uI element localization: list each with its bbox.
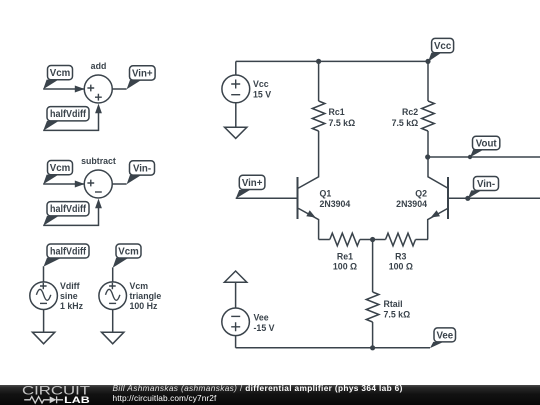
- svg-text:add: add: [91, 61, 107, 71]
- label Vcm triangle 100 Hz: [130, 281, 162, 311]
- wire node to Rtail: [372, 240, 374, 293]
- svg-text:2N3904: 2N3904: [396, 199, 427, 209]
- label Vdiff sine 1 kHz: [60, 281, 84, 311]
- node junction Rtail-bottom rail: [370, 345, 375, 350]
- svg-text:-15 V: -15 V: [254, 323, 275, 333]
- svg-text:Vin+: Vin+: [242, 178, 263, 189]
- svg-text:halfVdiff: halfVdiff: [50, 247, 87, 258]
- wire rail to Rc1: [318, 61, 320, 101]
- flag Vcm (subtract input): [43, 161, 72, 185]
- svg-text:Rc2: Rc2: [402, 107, 418, 117]
- label Re1 100 Ohm: [333, 252, 357, 272]
- ground (V1): [32, 332, 54, 344]
- voltage source V4 Vee: [222, 308, 250, 336]
- wire Vcc source to ground: [235, 103, 237, 127]
- svg-text:Vee: Vee: [254, 312, 269, 322]
- wire Vee source up: [235, 282, 237, 308]
- node junction Vout: [425, 154, 430, 159]
- svg-text:R3: R3: [395, 252, 406, 262]
- svg-text:Vcc: Vcc: [253, 79, 269, 89]
- wire Rtail to bottom rail: [372, 322, 374, 348]
- wire Rc1 to Q1 collector: [298, 131, 318, 188]
- svg-text:sine: sine: [60, 291, 78, 301]
- wire Vin+ to Q1 base: [236, 197, 298, 199]
- wire adder output: [112, 88, 126, 90]
- wire R3 to Q2 emitter: [416, 239, 429, 241]
- arrowhead into subtractor bottom: [95, 199, 102, 209]
- flag Vin+ (adder output): [127, 66, 156, 90]
- summing block U1 add: [84, 75, 112, 103]
- svg-text:http://circuitlab.com/cy7nr2f: http://circuitlab.com/cy7nr2f: [113, 393, 217, 403]
- transistor Q1 base bar: [297, 177, 299, 219]
- flag halfVdiff (add input): [43, 107, 89, 131]
- logo CIRCUIT: [22, 384, 91, 398]
- svg-text:7.5 kΩ: 7.5 kΩ: [384, 309, 411, 319]
- flag Vcm (add input): [43, 66, 72, 90]
- wire Rc2 to Q2 collector: [428, 131, 448, 188]
- label add: [91, 61, 107, 71]
- resistor Rtail: [366, 292, 379, 322]
- arrowhead into subtractor left: [75, 181, 85, 188]
- svg-text:Vout: Vout: [476, 139, 498, 150]
- wire rail to Rc2: [427, 61, 429, 101]
- resistor Rc1: [312, 101, 325, 131]
- svg-text:Vdiff: Vdiff: [60, 281, 80, 291]
- label Vee -15 V: [254, 312, 275, 332]
- svg-text:Vcm: Vcm: [118, 247, 139, 258]
- label Q1 2N3904: [320, 188, 351, 209]
- wire V2 to ground: [112, 310, 114, 333]
- svg-text:Vcm: Vcm: [50, 163, 71, 174]
- resistor R3: [386, 233, 416, 246]
- svg-text:halfVdiff: halfVdiff: [50, 109, 87, 120]
- label Rtail 7.5 kOhm: [384, 299, 411, 319]
- svg-text:LAB: LAB: [64, 395, 90, 405]
- wire Q2 base to Vin-: [448, 197, 540, 199]
- svg-text:Vee: Vee: [436, 331, 453, 342]
- node junction rail-Rc2: [425, 59, 430, 64]
- ground (Vcc source): [225, 127, 247, 138]
- svg-text:100 Ω: 100 Ω: [333, 261, 357, 271]
- label Vcc 15 V: [253, 79, 271, 99]
- flag halfVdiff (subtract input): [43, 202, 89, 226]
- node junction Vin-: [465, 196, 470, 201]
- transistor Q2 emitter: [428, 208, 448, 239]
- logo LAB: [64, 395, 90, 405]
- svg-text:1 kHz: 1 kHz: [60, 301, 84, 311]
- arrowhead Q1 emitter: [306, 210, 315, 217]
- label Q2 2N3904: [396, 188, 427, 209]
- wire top rail: [236, 60, 428, 62]
- svg-text:2N3904: 2N3904: [320, 199, 351, 209]
- wire flag to V1: [43, 266, 45, 282]
- transistor Q2 base bar: [447, 177, 449, 219]
- wire Vcm to adder input: [43, 88, 84, 90]
- svg-text:subtract: subtract: [81, 156, 116, 166]
- wire halfVdiff to adder bottom: [43, 107, 98, 130]
- label R3 100 Ohm: [389, 252, 413, 272]
- wire Q1 emitter to Re1: [319, 239, 330, 241]
- label subtract: [81, 156, 116, 166]
- svg-text:Vcc: Vcc: [434, 41, 452, 52]
- wire V1 to ground: [43, 310, 45, 333]
- wire Re1 to R3: [360, 239, 386, 241]
- svg-text:triangle: triangle: [130, 291, 162, 301]
- wire Vout: [428, 156, 540, 158]
- svg-text:Rc1: Rc1: [329, 107, 345, 117]
- svg-text:Vcm: Vcm: [50, 68, 71, 79]
- svg-text:Bill Ashmanskas (ashmanskas) /: Bill Ashmanskas (ashmanskas) / different…: [113, 383, 403, 393]
- ground (Vee source, up): [224, 271, 246, 282]
- resistor Re1: [330, 233, 360, 246]
- voltage source V2 Vcm triangle: [99, 282, 127, 310]
- flag Vee (bottom rail): [430, 328, 456, 348]
- svg-text:7.5 kΩ: 7.5 kΩ: [329, 118, 356, 128]
- arrowhead into adder left: [75, 86, 85, 93]
- svg-text:Q1: Q1: [320, 188, 332, 198]
- label Rc1 7.5 kOhm: [329, 107, 356, 128]
- transistor Q1 emitter: [298, 208, 318, 239]
- resistor Rc2: [422, 101, 435, 131]
- flag Vout: [468, 136, 500, 159]
- arrowhead Q2 emitter: [431, 210, 440, 217]
- svg-text:Re1: Re1: [337, 252, 353, 262]
- svg-text:Vin-: Vin-: [133, 163, 151, 174]
- footer bar: [0, 385, 540, 405]
- flag Vin- (subtractor output): [127, 161, 155, 185]
- footer url line: [113, 393, 217, 403]
- svg-text:15 V: 15 V: [253, 90, 271, 100]
- voltage source V3 Vcc: [222, 75, 250, 103]
- flag Vcm (source V2 top): [113, 244, 141, 268]
- svg-text:Vcm: Vcm: [130, 281, 149, 291]
- wire subtractor output: [112, 183, 126, 185]
- svg-text:Rtail: Rtail: [384, 299, 403, 309]
- svg-text:Vin+: Vin+: [132, 68, 153, 79]
- label Rc2 7.5 kOhm: [392, 107, 419, 128]
- svg-text:Q2: Q2: [415, 188, 427, 198]
- wire Vcc source to rail: [235, 61, 237, 75]
- svg-text:100 Hz: 100 Hz: [130, 301, 158, 311]
- ground (V2): [102, 332, 124, 344]
- flag Vin+ (Q1 base): [236, 175, 265, 198]
- wire Vcm to subtractor input: [43, 183, 84, 185]
- node junction rail-Rc1: [316, 59, 321, 64]
- flag Vin- (Q2 base): [468, 177, 499, 199]
- logo resistor-diode squiggle: [24, 396, 63, 403]
- flag halfVdiff (source V1 top): [44, 244, 90, 267]
- svg-text:7.5 kΩ: 7.5 kΩ: [392, 118, 419, 128]
- wire halfVdiff to subtractor bottom: [43, 202, 98, 225]
- svg-text:100 Ω: 100 Ω: [389, 261, 413, 271]
- footer title line: [113, 383, 403, 393]
- svg-text:Vin-: Vin-: [477, 179, 495, 190]
- wire bottom rail: [236, 347, 430, 349]
- arrowhead into adder bottom: [95, 104, 102, 114]
- flag Vcc (rail): [428, 38, 454, 61]
- wire flag to V2: [112, 267, 114, 282]
- node junction emitters-Rtail: [370, 237, 375, 242]
- voltage source V1 Vdiff sine: [30, 282, 58, 310]
- summing block U2 subtract: [84, 170, 112, 198]
- wire Vee source to bottom rail: [235, 336, 237, 348]
- svg-text:halfVdiff: halfVdiff: [50, 204, 87, 215]
